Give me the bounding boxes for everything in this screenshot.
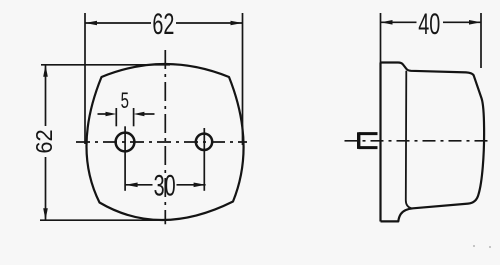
side view: horizontal centerline xyxy=(345,140,491,142)
dimension 62 top: right extension line xyxy=(242,13,244,145)
dimension 62 left: top extension line xyxy=(41,64,170,66)
svg-text:62: 62 xyxy=(31,129,57,153)
side view: back face / extension line xyxy=(380,13,382,63)
dimension 5: left tick xyxy=(115,108,117,126)
side view: lens/housing joint line xyxy=(406,71,412,209)
scan speck xyxy=(473,245,475,247)
dimension 30: right arrowhead xyxy=(194,183,206,188)
svg-text:30: 30 xyxy=(154,170,176,203)
dimension 62 top: left arrowhead xyxy=(85,21,97,26)
hole H2 centerline vertical xyxy=(203,128,205,191)
front view lamp outline xyxy=(86,64,243,220)
dimension 30: left arrowhead xyxy=(126,183,138,188)
dimension 62 top: left extension line xyxy=(84,13,86,144)
horizontal centerline through holes xyxy=(76,141,247,143)
dimension 5: left arrow xyxy=(98,113,107,115)
dimension 62 left: bottom arrowhead xyxy=(43,208,48,220)
dimension 40: right extension line xyxy=(480,13,482,68)
side view: housing and lens outline xyxy=(381,63,485,222)
mounting hole H1 xyxy=(116,133,135,152)
svg-text:40: 40 xyxy=(418,8,440,41)
dimension 40: right arrowhead xyxy=(469,20,481,25)
vertical centerline front view xyxy=(164,50,166,224)
dimension 40: dimension line xyxy=(381,21,482,23)
side view: mounting stud (bold) xyxy=(359,134,378,148)
svg-text:62: 62 xyxy=(152,8,174,41)
dimension 62 left: dimension line xyxy=(45,65,47,220)
dimension 5: right arrow xyxy=(144,113,155,115)
dimension 62 top: right arrowhead xyxy=(231,21,243,26)
dimension 62 left: top arrowhead xyxy=(43,65,48,77)
scan speck xyxy=(489,246,491,248)
mounting hole H2 xyxy=(196,134,212,150)
dimension 40: left arrowhead xyxy=(381,20,393,25)
hole H1 centerline vertical xyxy=(124,126,126,191)
dimension 62 left: bottom extension line xyxy=(40,219,162,221)
dimension 30: dimension line xyxy=(126,184,206,186)
dimension 5: right tick xyxy=(133,108,135,126)
svg-text:5: 5 xyxy=(121,88,129,113)
dimension 62 top: dimension line xyxy=(85,22,243,24)
